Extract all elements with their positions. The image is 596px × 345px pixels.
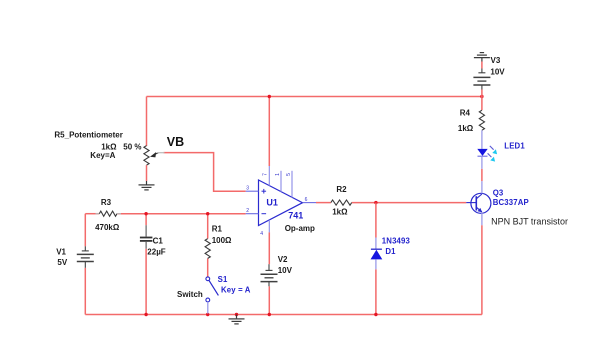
wire R2 to Q3 base	[352, 202, 467, 204]
svg-text:1kΩ: 1kΩ	[458, 124, 474, 133]
wire opamp V+ drop	[268, 97, 270, 167]
svg-text:100Ω: 100Ω	[212, 236, 232, 245]
op-amp U1 minus sign	[262, 213, 267, 215]
wire V3 internal	[481, 62, 483, 69]
transistor Q3 emitter diagonal	[476, 207, 482, 212]
svg-text:7: 7	[262, 173, 268, 176]
svg-text:1N3493: 1N3493	[382, 236, 411, 245]
svg-text:1kΩ: 1kΩ	[332, 208, 348, 217]
node junction R2 D1	[374, 201, 377, 204]
ground (pot)	[139, 181, 155, 190]
node junction bus S1	[206, 313, 209, 316]
wire Q3 emitter to bus	[481, 225, 483, 314]
svg-text:Key=A: Key=A	[90, 151, 115, 160]
node junction top bus / pin7	[268, 95, 271, 98]
switch S1	[206, 277, 210, 281]
wire V2 branch	[268, 232, 270, 264]
potentiometer R5 wiper arrow	[150, 152, 156, 157]
node junction mid R1	[206, 212, 209, 215]
svg-text:Switch: Switch	[177, 290, 203, 299]
svg-text:Op-amp: Op-amp	[285, 224, 315, 233]
op-amp U1 output lead	[303, 202, 317, 204]
svg-text:470kΩ: 470kΩ	[95, 223, 120, 232]
svg-text:D1: D1	[385, 247, 396, 256]
node junction bus ground	[235, 313, 238, 316]
wire R1 branch	[207, 214, 209, 239]
svg-text:R2: R2	[336, 185, 347, 194]
LED1 light arrow 2	[488, 153, 492, 157]
svg-text:Key = A: Key = A	[221, 285, 251, 294]
battery V1	[77, 246, 94, 267]
wire V3 to top bus	[481, 90, 483, 97]
transistor Q3 collector lead	[481, 181, 483, 193]
transistor Q3 base bar	[475, 196, 477, 210]
ground (bottom bus)	[229, 315, 245, 324]
wire bottom bus	[85, 314, 482, 316]
op-amp U1	[259, 180, 303, 226]
wire LED to Q3 collector	[481, 169, 483, 181]
LED1 light arrow 1	[490, 146, 494, 150]
LED1 cathode bar	[478, 155, 488, 157]
svg-text:3: 3	[246, 186, 249, 192]
ground flipped (V3 top)	[474, 53, 490, 62]
battery V2	[261, 264, 278, 286]
svg-text:LED1: LED1	[504, 142, 525, 151]
wire pot to ground	[146, 165, 148, 181]
svg-text:R5_Potentiometer: R5_Potentiometer	[54, 130, 122, 139]
node junction bus D1	[374, 313, 377, 316]
LED1 anode lead	[481, 130, 483, 149]
svg-text:10V: 10V	[278, 266, 293, 275]
transistor Q3 base lead	[466, 202, 476, 204]
transistor Q3 emitter arrow	[478, 208, 483, 212]
transistor Q3 emitter lead	[481, 213, 483, 225]
svg-text:R3: R3	[101, 198, 112, 207]
svg-text:22µF: 22µF	[147, 248, 166, 257]
capacitor C1	[145, 225, 147, 236]
svg-text:V1: V1	[56, 248, 66, 257]
node junction bus V2	[268, 313, 271, 316]
wire VB wiper to opamp +	[164, 153, 246, 192]
svg-text:5V: 5V	[57, 258, 67, 267]
wire top bus	[147, 96, 482, 98]
svg-text:1: 1	[275, 173, 281, 176]
op-amp U1 pin7 stub (blue part)	[268, 166, 270, 186]
svg-text:Q3: Q3	[493, 188, 504, 197]
svg-text:BC337AP: BC337AP	[493, 198, 529, 207]
svg-text:5: 5	[286, 173, 292, 176]
wire C1 branch	[145, 214, 147, 226]
wire left column	[84, 214, 86, 247]
LED1 triangle	[477, 149, 487, 156]
wire D1 branch	[375, 203, 377, 238]
resistor R1	[205, 239, 210, 259]
svg-text:4: 4	[260, 231, 263, 237]
op-amp U1 pin1 stub	[280, 171, 282, 192]
diode D1	[375, 238, 377, 250]
svg-text:6: 6	[305, 197, 308, 203]
resistor R2	[331, 200, 352, 205]
svg-text:S1: S1	[218, 275, 228, 284]
svg-text:10V: 10V	[490, 67, 505, 76]
svg-text:R1: R1	[212, 225, 223, 234]
svg-text:V3: V3	[491, 56, 501, 65]
potentiometer R5 zigzag	[144, 146, 149, 166]
op-amp U1 plus sign	[262, 190, 267, 192]
op-amp U1 input leads	[246, 190, 259, 192]
svg-text:1kΩ: 1kΩ	[101, 142, 117, 151]
wire pot top lead	[146, 97, 148, 147]
battery V3	[473, 69, 490, 90]
transistor Q3 collector diagonal	[476, 194, 482, 199]
node junction top bus / V3 R4	[480, 95, 483, 98]
svg-text:VB: VB	[167, 135, 184, 149]
wire mid rail V1 to opamp -	[85, 213, 99, 215]
op-amp U1 pin5 stub	[291, 171, 293, 198]
svg-text:NPN BJT transistor: NPN BJT transistor	[491, 216, 568, 226]
svg-text:50 %: 50 %	[123, 142, 141, 151]
wire opamp output to R2	[316, 202, 331, 204]
svg-text:C1: C1	[153, 236, 164, 245]
svg-text:U1: U1	[266, 198, 278, 208]
wire top bus to R4	[481, 97, 483, 111]
node junction mid C1	[144, 212, 147, 215]
svg-text:2: 2	[246, 208, 249, 214]
resistor R3	[96, 213, 100, 215]
transistor Q3	[471, 193, 491, 213]
node junction bus C1	[144, 313, 147, 316]
svg-text:R4: R4	[460, 108, 471, 117]
svg-text:V2: V2	[278, 255, 288, 264]
resistor R4	[479, 110, 484, 130]
svg-text:741: 741	[288, 210, 303, 220]
op-amp U1 pin4 stub	[268, 220, 270, 232]
LED1 cathode lead	[481, 156, 483, 169]
